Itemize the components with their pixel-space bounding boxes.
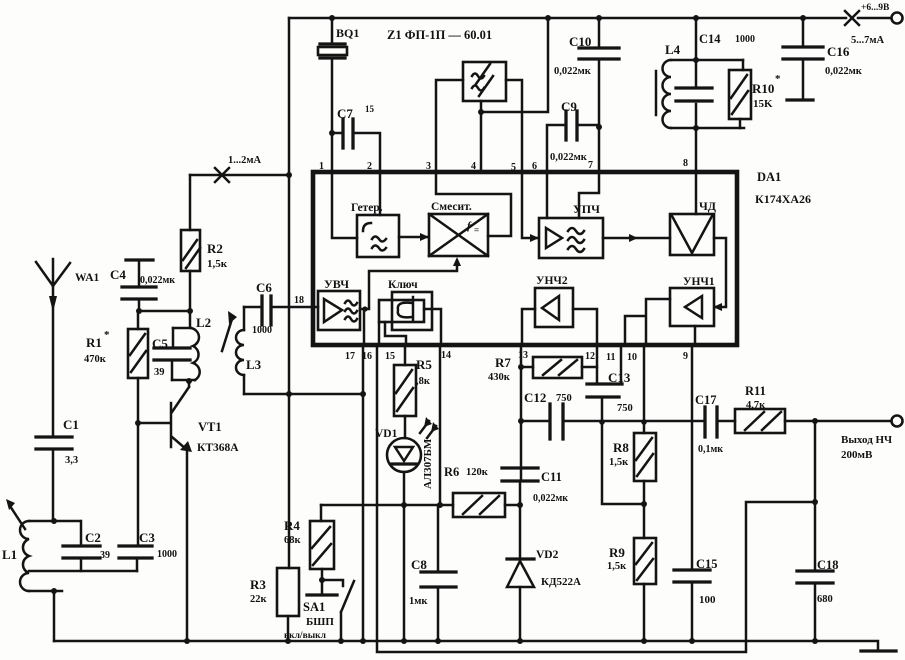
svg-text:R4: R4 [284,518,300,533]
svg-text:1мк: 1мк [409,596,428,607]
capacitor C10 [598,18,601,127]
op-amp block UNCh2 [535,288,573,327]
capacitor C15 [674,570,710,582]
node junction L2 bottom / collector [186,378,192,384]
svg-text:C14: C14 [699,32,721,46]
resistor R5 on pin 15 [404,346,407,438]
capacitor C18 [814,421,817,571]
resistor R4 68k [320,505,323,521]
node junction supply line / L3 wire [286,391,292,397]
svg-text:C3: C3 [139,530,155,545]
svg-text:39: 39 [100,550,110,561]
wire Z1 right to pin 5 [506,80,522,172]
svg-text:C4: C4 [110,267,126,282]
wire UNCh2 out to pin 12 [573,309,597,344]
capacitor C11 [520,468,523,481]
svg-text:0,022мк: 0,022мк [825,66,863,77]
svg-text:68к: 68к [284,535,302,546]
capacitor C5 [172,328,173,380]
svg-text:C16: C16 [827,44,850,59]
svg-text:VD1: VD1 [375,428,398,440]
svg-text:13: 13 [518,350,528,361]
svg-text:680: 680 [817,594,833,605]
node supply terminal +6...9V [892,13,903,24]
svg-text:R7: R7 [495,355,511,370]
wire UNCh1 bottom to pin 9 [694,326,697,344]
svg-text:L1: L1 [2,547,17,562]
svg-text:3,3: 3,3 [65,455,78,466]
svg-text:4,7к: 4,7к [746,400,766,411]
svg-text:R8: R8 [613,440,629,455]
node junction L3 wire / pin17 wire [360,391,366,397]
svg-text:L4: L4 [665,42,681,57]
ground symbol [861,649,896,652]
svg-text:C2: C2 [85,530,101,545]
svg-text:АЛ307БМ: АЛ307БМ [422,438,434,489]
svg-text:C11: C11 [541,470,562,484]
resistor R6 120k [453,493,505,517]
wire mixer out to pin 3 [436,174,511,236]
svg-text:1,5к: 1,5к [607,561,627,572]
node rail junction R3 [285,638,291,644]
capacitor C4 [126,258,153,261]
capacitor C12 [521,420,550,423]
svg-text:КД522А: КД522А [541,576,581,588]
node junction L1 bottom [51,588,57,594]
svg-text:1...2мА: 1...2мА [228,155,262,166]
svg-text:1: 1 [319,161,324,172]
svg-text:R5: R5 [416,357,432,372]
wire pin18 into UVCh [313,306,318,309]
diode VD2 KD522A [507,557,534,560]
wire UVCh out down to pin 17 [363,309,366,344]
node rail junction SA1 [338,638,344,644]
node rail junction C18 [812,638,818,644]
svg-text:100: 100 [699,594,716,606]
op-amp block UPCh (IF amp) [539,218,603,258]
svg-text:120к: 120к [466,467,489,478]
wire pin6 to UPCh top [546,174,549,218]
transistor VT1 KT368A [138,422,170,425]
ground rail bottom [54,641,878,650]
svg-text:R1: R1 [86,335,102,350]
node junction R1/base/C3 [135,420,141,426]
inductor L1 variable [29,520,80,523]
svg-text:,8к: ,8к [416,376,431,387]
svg-text:0,1мк: 0,1мк [698,444,723,455]
op-amp DA1 K174XA26 IC outline [313,172,737,345]
svg-text:C10: C10 [569,34,591,49]
node junction C4/R1/R2 [136,308,142,314]
svg-text:18: 18 [294,295,304,306]
svg-text:0,022мк: 0,022мк [550,152,588,163]
resistor R2 [189,175,192,311]
svg-text:750: 750 [556,393,572,404]
wire pin7 to UPCh top right [579,174,599,218]
wire pin2 to Geter top [379,172,382,215]
wire pin5 to UPCh in [522,174,537,238]
svg-text:Смесит.: Смесит. [431,201,472,213]
op-amp block Klyuch (gate) [379,300,424,322]
resistor R11 4.7k [735,409,785,433]
svg-text:22к: 22к [250,594,268,605]
svg-text:C7: C7 [337,106,353,121]
svg-text:14: 14 [441,350,451,361]
svg-text:BQ1: BQ1 [336,26,359,40]
svg-text:2: 2 [367,161,372,172]
svg-text:R11: R11 [745,384,766,398]
resistor R10 15K [740,60,743,128]
svg-text:VD2: VD2 [536,549,559,561]
node junction antenna/L1 top [51,518,57,524]
op-amp block Smesit (mixer) [429,214,488,256]
wire Klyuch to pin 16 [378,322,381,344]
wire Z1 left to pin 3 [436,80,463,172]
svg-text:3: 3 [426,161,431,172]
wire Klyuch to pin 15 [385,322,406,344]
svg-text:15: 15 [385,351,395,362]
node break X 1...2mA [215,168,229,182]
op-amp block UVCh (RF amp) [318,291,360,330]
wire R8 to R9 [643,481,646,538]
svg-text:15K: 15K [753,98,773,110]
svg-text:VT1: VT1 [198,420,222,434]
inductor L3 [243,307,246,394]
node rail junction VD1 [401,638,407,644]
op-amp block Geter (local oscillator) [357,215,399,257]
svg-text:10: 10 [627,352,637,363]
node rail junction C15 [689,638,695,644]
svg-text:8: 8 [683,158,688,169]
svg-text:1000: 1000 [735,34,755,45]
wire UPCh out to ChD [603,237,670,240]
svg-text:11: 11 [606,352,615,363]
op-amp block UNCh1 [670,288,714,326]
node rail junction R9 [641,638,647,644]
wire L3 bottom to pin16/17 column [244,393,363,396]
svg-text:КТ368А: КТ368А [197,442,239,454]
svg-text:1,5к: 1,5к [609,457,629,468]
capacitor C6 [244,306,313,309]
svg-text:БШП: БШП [306,616,334,628]
svg-text:470к: 470к [84,354,107,365]
capacitor C13 [587,384,622,397]
svg-text:R6: R6 [444,465,459,479]
svg-text:C1: C1 [63,417,79,432]
wire pin 14 down to AGC node [439,346,442,505]
crystal BQ1 [331,18,334,172]
svg-text:C13: C13 [608,370,631,385]
svg-text:R3: R3 [250,577,266,592]
svg-text:17: 17 [345,351,355,362]
node junction pin14/C8 [437,502,443,508]
wire pin 17 to ground rail [362,346,365,641]
svg-text:1000: 1000 [157,549,177,560]
capacitor C9 [547,125,599,172]
svg-text:К174ХА26: К174ХА26 [755,192,811,206]
antenna WA1 [36,259,70,437]
svg-text:ЧД: ЧД [699,199,717,213]
node output terminal [892,416,903,427]
svg-text:Z1 ФП-1П — 60.01: Z1 ФП-1П — 60.01 [387,28,492,42]
svg-text:0,022мк: 0,022мк [554,66,592,77]
svg-text:R10: R10 [752,81,774,96]
svg-text:L3: L3 [246,357,262,372]
wire Klyuch right to pin 14 [424,309,441,344]
svg-text:+6...9В: +6...9В [861,3,890,13]
svg-text:вкл/выкл: вкл/выкл [284,631,327,641]
wire supply vertical feed x=288 [288,18,291,568]
capacitor C3 [137,423,138,571]
svg-text:6: 6 [532,161,537,172]
svg-text:УВЧ: УВЧ [324,277,349,291]
resistor R8 1.5k on pin 10 [643,346,646,433]
svg-text:DA1: DA1 [757,170,781,184]
resistor R7 430k [521,366,597,369]
wire pin1 to Geter [332,172,357,238]
svg-text:C9: C9 [561,99,577,114]
svg-text:SA1: SA1 [303,600,325,614]
wire L1 to ground rail [53,591,56,641]
svg-text:C12: C12 [524,390,546,405]
op-amp block ChD (FM detector) [670,214,714,255]
svg-text:1,5к: 1,5к [207,258,228,270]
capacitor C2 [80,521,83,571]
node arrow of variable L1 [10,506,25,529]
svg-text:0,022мк: 0,022мк [140,275,175,286]
node ferrite core bar of L4 [655,71,658,115]
svg-text:УПЧ: УПЧ [573,202,600,216]
svg-text:200мВ: 200мВ [841,449,873,461]
wire UVCh out up to mixer bottom [360,265,457,309]
svg-text:C6: C6 [256,280,272,295]
svg-text:C17: C17 [695,393,717,407]
svg-text:C15: C15 [696,557,718,571]
node rail junction C8 [435,638,441,644]
node junction 1...2mA branch [286,172,292,178]
svg-text:15: 15 [365,104,375,114]
wire Z1 bottom to pin 4 and supply [481,18,548,172]
svg-text:*: * [104,329,110,341]
wire collector feed branch with X break [190,174,289,177]
svg-text:5...7мА: 5...7мА [851,35,885,46]
svg-text:WA1: WA1 [75,272,100,284]
wire ChD out to UNCh1 [714,238,726,307]
resistor R1 470k [137,311,140,423]
svg-text:5: 5 [511,162,516,173]
wire AGC horizontal node line [321,504,453,507]
svg-text:C8: C8 [411,557,427,572]
wire audio node horizontal [563,420,705,423]
capacitor C17 [705,407,717,437]
svg-text:C18: C18 [817,558,839,572]
capacitor C16 [802,18,805,100]
wire pin8 to ChD top [695,174,698,214]
svg-text:Гетер.: Гетер. [351,202,383,214]
svg-text:750: 750 [617,403,633,414]
svg-text:L2: L2 [196,315,211,330]
svg-text:R2: R2 [207,241,223,256]
svg-text:УНЧ1: УНЧ1 [683,276,715,288]
node junction VD1 [401,502,407,508]
svg-text:*: * [775,73,781,85]
svg-text:C5: C5 [152,336,168,351]
wire UNCh2 in to pin 13 [522,309,535,344]
svg-text:12: 12 [585,351,595,362]
wire R11 to output terminal [785,420,891,423]
switch SA1 [322,569,343,593]
node rail junction VD2 [517,638,523,644]
node rail junction pin17 [360,638,366,644]
wire top supply rail [289,17,891,20]
svg-text:УНЧ2: УНЧ2 [536,275,568,287]
wire Geter out to mixer [399,236,427,239]
svg-text:9: 9 [683,351,688,362]
resistor R3 22k [277,568,299,616]
svg-text:4: 4 [471,161,476,172]
inductor L2 with capacitor C5 tank [172,311,195,380]
wire pin 11 down to C13 [620,346,623,384]
resistor R9 1.5k [634,538,656,584]
node break X on supply rail [845,11,859,25]
inductor L4 tank with C14 and R10 [671,18,744,128]
svg-text:7: 7 [588,160,593,171]
svg-text:0,022мк: 0,022мк [533,493,568,504]
svg-text:430к: 430к [488,372,511,383]
node rail junction VT1 emitter [184,638,190,644]
wire second return rail [377,346,815,652]
wire UNCh1 to pins 10 and 11 [625,299,670,344]
wire pin 9 to C15 [691,346,694,570]
LED VD1 AL307BM [387,438,421,472]
svg-text:1000: 1000 [252,325,272,336]
wire pin 12 down to C13 [596,346,599,384]
wire L4 bottom to pin 8 [695,128,698,172]
capacitor C14 [676,88,712,101]
node tuning arrow between L2 and L3 [222,319,232,351]
svg-text:R9: R9 [609,545,625,560]
wire pin 13 column R7/C12/C11 [520,346,523,468]
capacitor C7 [329,130,335,136]
wire C4 node to R2 bottom [138,310,190,313]
svg-text:=: = [474,225,479,235]
capacitor C8 [437,505,440,641]
capacitor C1 [36,437,72,449]
node LED light arrows [420,421,436,438]
svg-text:Ключ: Ключ [388,279,418,291]
wire C13 bottom bypass to R8/R9 node [602,397,644,504]
svg-text:Выход НЧ: Выход НЧ [841,434,892,446]
node junction R2 bottom [187,308,193,314]
svg-text:39: 39 [154,367,165,378]
